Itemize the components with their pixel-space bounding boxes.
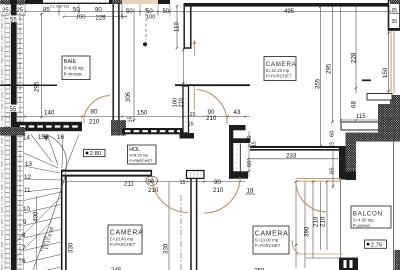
svg-text:55: 55 xyxy=(10,107,17,113)
svg-text:495: 495 xyxy=(284,9,295,15)
svg-text:15: 15 xyxy=(188,122,194,128)
svg-text:6: 6 xyxy=(22,258,26,265)
svg-text:50: 50 xyxy=(73,8,80,14)
svg-text:100: 100 xyxy=(76,14,85,20)
svg-text:15: 15 xyxy=(180,180,186,186)
svg-text:15: 15 xyxy=(38,134,45,141)
svg-text:25: 25 xyxy=(392,8,398,14)
svg-text:BALCON: BALCON xyxy=(353,211,383,218)
svg-text:18: 18 xyxy=(247,188,254,195)
svg-text:150: 150 xyxy=(137,110,148,117)
svg-text:210: 210 xyxy=(89,119,100,126)
svg-text:2.80: 2.80 xyxy=(90,151,101,157)
svg-text:295: 295 xyxy=(34,81,41,92)
svg-text:210: 210 xyxy=(213,187,224,194)
svg-text:210: 210 xyxy=(313,216,320,227)
svg-text:15: 15 xyxy=(330,142,336,148)
svg-text:400: 400 xyxy=(33,211,40,222)
svg-text:25: 25 xyxy=(17,8,24,14)
svg-text:68: 68 xyxy=(351,101,358,108)
svg-text:BAIE: BAIE xyxy=(64,59,77,65)
svg-text:80: 80 xyxy=(91,109,98,116)
svg-text:90: 90 xyxy=(95,8,102,14)
svg-text:10: 10 xyxy=(23,206,30,213)
svg-text:P=mozaic: P=mozaic xyxy=(64,72,82,77)
svg-text:15: 15 xyxy=(128,117,134,123)
svg-text:14: 14 xyxy=(23,135,30,142)
svg-text:P=PARCHET: P=PARCHET xyxy=(110,242,136,247)
svg-text:295: 295 xyxy=(326,63,333,74)
svg-text:228: 228 xyxy=(351,52,358,63)
svg-text:P=PARCHET: P=PARCHET xyxy=(266,73,292,78)
svg-text:25: 25 xyxy=(2,8,9,14)
svg-text:P=PARCHET: P=PARCHET xyxy=(255,243,281,248)
svg-text:P=PARCHET: P=PARCHET xyxy=(129,158,153,163)
svg-text:110: 110 xyxy=(174,22,181,32)
svg-text:16: 16 xyxy=(57,134,64,141)
svg-text:9: 9 xyxy=(23,219,27,226)
svg-text:150: 150 xyxy=(382,67,389,78)
svg-text:13: 13 xyxy=(25,161,32,168)
svg-text:210: 210 xyxy=(179,98,185,108)
svg-text:50: 50 xyxy=(247,136,253,142)
svg-text:12: 12 xyxy=(24,174,31,181)
svg-text:43: 43 xyxy=(234,109,241,116)
svg-text:7: 7 xyxy=(22,245,26,252)
svg-text:390: 390 xyxy=(304,226,311,237)
svg-text:115: 115 xyxy=(356,114,366,120)
svg-text:50: 50 xyxy=(163,9,170,15)
svg-text:211: 211 xyxy=(124,181,134,188)
svg-text:60: 60 xyxy=(247,161,253,167)
svg-text:330: 330 xyxy=(163,243,170,254)
svg-text:2.75: 2.75 xyxy=(371,242,382,248)
svg-text:60: 60 xyxy=(330,131,336,137)
svg-text:P=gresie: P=gresie xyxy=(353,223,371,228)
svg-text:CAMERA: CAMERA xyxy=(266,61,297,68)
svg-text:90: 90 xyxy=(214,179,221,186)
svg-text:225: 225 xyxy=(96,16,107,22)
svg-text:8: 8 xyxy=(22,232,26,239)
svg-text:50: 50 xyxy=(126,9,133,15)
svg-text:55: 55 xyxy=(10,18,17,24)
svg-text:100: 100 xyxy=(146,15,155,21)
svg-text:305: 305 xyxy=(125,91,132,102)
svg-text:15: 15 xyxy=(252,141,258,147)
svg-text:140: 140 xyxy=(44,110,55,117)
svg-text:11: 11 xyxy=(24,187,31,194)
svg-text:355: 355 xyxy=(315,78,322,89)
svg-text:210: 210 xyxy=(320,216,327,227)
svg-text:233: 233 xyxy=(286,153,297,160)
svg-text:CAMERA: CAMERA xyxy=(110,230,144,237)
svg-text:15: 15 xyxy=(190,112,196,118)
svg-text:o.c. hsp=110: o.c. hsp=110 xyxy=(50,4,69,8)
svg-text:CAMERA: CAMERA xyxy=(255,231,289,238)
svg-text:15: 15 xyxy=(118,14,124,20)
svg-text:330: 330 xyxy=(68,242,75,253)
svg-text:65: 65 xyxy=(330,168,336,174)
svg-text:S=6.65 mp: S=6.65 mp xyxy=(64,66,85,71)
svg-text:210: 210 xyxy=(206,115,217,122)
svg-text:35: 35 xyxy=(392,19,398,25)
